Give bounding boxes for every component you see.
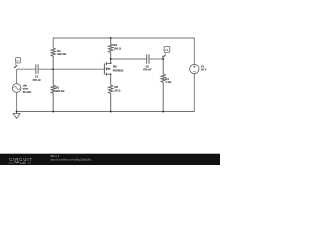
svg-text:LAB: LAB xyxy=(20,161,26,165)
junction ground rail / Uin xyxy=(16,111,18,113)
wire top rail xyxy=(53,38,194,64)
transistor M2 xyxy=(104,59,111,85)
wire gate net right xyxy=(38,68,105,70)
junction V+ rail / R3 xyxy=(110,37,112,39)
svg-text:M2: M2 xyxy=(113,65,117,69)
wire input branch xyxy=(16,69,18,111)
labels xyxy=(17,43,207,94)
source V1 xyxy=(190,64,199,73)
svg-text:10 V: 10 V xyxy=(201,68,207,72)
svg-text:out: out xyxy=(165,48,168,51)
resistor R2 xyxy=(51,69,55,111)
svg-text:50 kHz: 50 kHz xyxy=(23,90,32,94)
capacitor C2 xyxy=(147,54,149,63)
svg-text:470 nF: 470 nF xyxy=(143,68,152,72)
watermark bar xyxy=(0,153,220,165)
wire gate net left xyxy=(17,68,36,70)
junction drain node xyxy=(110,58,112,60)
resistor R3 xyxy=(109,38,113,59)
source Uin xyxy=(12,84,21,93)
junction ground rail / R5 xyxy=(110,111,112,113)
wire drain net left xyxy=(111,58,147,60)
wire bottom rail xyxy=(17,74,195,112)
svg-text:470 nF: 470 nF xyxy=(32,78,41,82)
flag output xyxy=(162,47,170,58)
junction ground rail / R2 xyxy=(52,111,54,113)
ground xyxy=(13,112,20,119)
resistor R4 xyxy=(161,59,165,112)
svg-text:100 kΩ: 100 kΩ xyxy=(56,89,66,93)
svg-text:FDV301N: FDV301N xyxy=(113,69,124,72)
junction gate node / R1-R2 divider xyxy=(52,68,54,70)
resistor R5 xyxy=(109,85,113,112)
junction ground rail / R4 xyxy=(162,111,164,113)
svg-text:100 Ω: 100 Ω xyxy=(114,46,122,50)
wire drain net right xyxy=(149,58,163,60)
resistor R1 xyxy=(51,48,55,69)
junction output node xyxy=(162,58,164,60)
capacitor C1 xyxy=(36,64,38,74)
svg-text:1 kΩ: 1 kΩ xyxy=(165,80,172,84)
flag input xyxy=(14,58,21,68)
svg-text:100 kΩ: 100 kΩ xyxy=(57,52,67,56)
svg-text:http://circuitlab.com/c/fkg25a: http://circuitlab.com/c/fkg25af2u8y xyxy=(50,158,91,162)
svg-text:Alim / 1: Alim / 1 xyxy=(50,154,59,158)
svg-text:25 Ω: 25 Ω xyxy=(115,88,122,92)
